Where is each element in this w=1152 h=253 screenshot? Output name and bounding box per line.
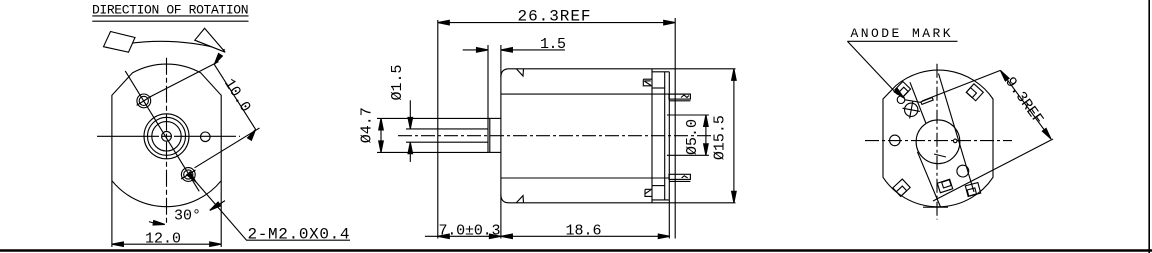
svg-text:10.0: 10.0	[220, 76, 254, 116]
dim dia1.5 ext top	[406, 128, 438, 130]
dim 12.0 line	[112, 243, 221, 245]
body inner line top	[501, 93, 690, 95]
dim 9.3REF ext lower	[933, 139, 1053, 201]
screw hole S1 (top-left)	[137, 94, 151, 108]
end cap top	[652, 71, 669, 73]
rotation arrow head	[195, 28, 225, 52]
front face outline (flats + chamfers + top arc)	[112, 64, 221, 247]
rear boss circle	[916, 120, 960, 164]
dim 18.6 line	[501, 235, 670, 237]
slot bottom-center	[937, 179, 952, 193]
label ANODE MARK underline	[847, 40, 957, 42]
terminal top	[669, 94, 690, 99]
anode slot link line	[905, 100, 922, 103]
terminal bottom	[669, 174, 690, 179]
dim 10.0 extension line 1	[150, 62, 219, 97]
dim dia15.5 ext top	[652, 68, 736, 70]
rear horizontal centerline	[865, 140, 1012, 142]
pilot hole right	[201, 132, 211, 142]
crimp tab top	[643, 79, 651, 86]
dim dia15.5 ext bottom	[652, 202, 736, 204]
rear vertical centerline	[936, 64, 938, 220]
dim dia5.0 ext bottom	[667, 154, 709, 156]
anode slot (thin)	[921, 98, 933, 105]
rear outline	[883, 70, 993, 207]
crimp tab bottom	[645, 189, 653, 196]
slot top-right	[966, 84, 983, 101]
screw hole S2 (bottom-right)	[181, 168, 195, 182]
ext line body face top	[500, 45, 502, 69]
rear screw hole	[903, 101, 920, 118]
svg-text:12.0: 12.0	[145, 231, 181, 248]
svg-text:18.6: 18.6	[566, 222, 602, 239]
rotation arrow tail box	[104, 32, 136, 53]
label 2-M2.0X0.4 leader	[196, 181, 351, 240]
shaft circle	[162, 131, 172, 141]
svg-text:26.3REF: 26.3REF	[518, 7, 591, 25]
ext line bushing tip	[487, 45, 489, 118]
ext line right (terminal end, 26.3)	[674, 18, 676, 239]
ext line left (shaft tip, 26.3/7.0)	[437, 20, 439, 239]
sheet bottom border	[0, 249, 1152, 251]
slot bottom-left	[893, 179, 910, 196]
title underline 1	[92, 15, 248, 17]
vertical centerline	[166, 58, 168, 223]
shaft top line	[438, 128, 488, 130]
boss circle	[152, 122, 181, 151]
bearing ring outer	[144, 114, 189, 159]
svg-text:1.5: 1.5	[540, 36, 566, 53]
dim dia5.0 ext top	[667, 114, 709, 116]
brush plate inner dash	[934, 154, 946, 157]
slot bottom-right	[965, 183, 980, 197]
svg-text:Ø5.0: Ø5.0	[684, 119, 701, 155]
svg-text:Ø15.5: Ø15.5	[712, 115, 729, 160]
svg-text:Ø4.7: Ø4.7	[358, 107, 375, 143]
dim 26.3REF line	[438, 22, 675, 24]
dim dia5.0 line	[705, 115, 707, 155]
dim 9.3REF ext upper	[922, 70, 1000, 101]
sheet right border	[1148, 0, 1150, 253]
rear hole lower right	[957, 165, 969, 177]
dim dia15.5 line	[733, 69, 735, 203]
shaft bottom line	[438, 141, 488, 143]
svg-text:Ø1.5: Ø1.5	[389, 64, 406, 100]
anode leader	[847, 41, 897, 94]
slot top-left	[895, 82, 911, 98]
body bottom edge	[501, 195, 652, 203]
brush plate edge upper-left	[910, 82, 926, 123]
svg-text:7.0±0.3: 7.0±0.3	[439, 222, 501, 239]
dim 10.0 extension line 2	[195, 128, 260, 168]
axis centerline	[398, 135, 712, 137]
body top edge	[501, 69, 652, 77]
dim dia4.7 ext bottom	[377, 151, 488, 153]
dim 10.0 line	[214, 64, 255, 129]
dim dia4.7 line	[380, 118, 382, 152]
dim 1.5 line left part	[463, 49, 488, 51]
body front face	[500, 69, 502, 239]
front face bottom arc	[112, 181, 221, 207]
bottom notch	[516, 196, 523, 203]
dim dia1.5 line	[409, 100, 411, 129]
title underline 2	[92, 20, 248, 22]
rear bottom tick	[923, 206, 948, 208]
dim dia4.7 ext top	[377, 117, 488, 119]
svg-text:DIRECTION OF ROTATION: DIRECTION OF ROTATION	[92, 2, 249, 17]
end cap right edge double	[664, 72, 666, 200]
svg-text:2-M2.0X0.4: 2-M2.0X0.4	[248, 226, 350, 244]
svg-text:9.3REF: 9.3REF	[1001, 74, 1046, 128]
end cap bottom	[652, 199, 669, 201]
brush plate edge lower-left	[917, 152, 940, 207]
horizontal centerline	[97, 135, 240, 137]
top notch	[516, 69, 523, 76]
dim dia1.5 ext bottom	[406, 141, 438, 143]
rotation arrow arc	[106, 41, 225, 50]
dim 9.3REF line	[1000, 70, 1051, 139]
ext line 18.6 right	[668, 200, 670, 239]
rear hole left	[890, 135, 901, 146]
svg-text:ANODE MARK: ANODE MARK	[851, 26, 951, 41]
brush plate edge right	[939, 74, 975, 193]
body inner line bottom	[501, 177, 669, 179]
dim 30 deg arc	[149, 222, 165, 225]
svg-text:30°: 30°	[174, 208, 201, 225]
screw axis line through S1 S2	[125, 71, 199, 191]
dim 1.5 line right part	[501, 49, 565, 51]
rear pin dot	[953, 139, 957, 143]
bushing outline	[488, 118, 501, 152]
bearing ring inner	[148, 117, 186, 155]
dim 7.0 line	[425, 235, 501, 237]
anode mark circle	[897, 96, 905, 104]
body rear face	[651, 69, 653, 203]
